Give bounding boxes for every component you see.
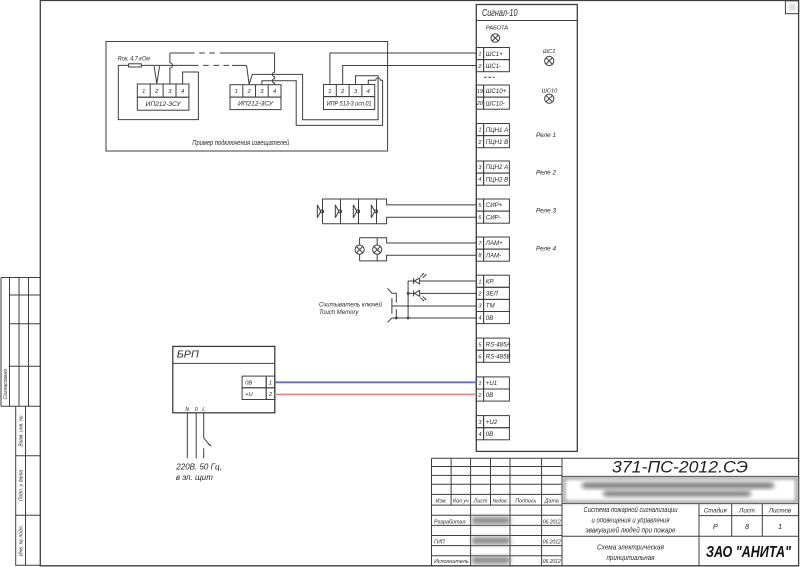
resistor Rok 4.7kOhm [118,55,151,67]
svg-text:Р: Р [713,522,718,531]
terminal 1 ШС1+ [476,48,509,60]
label 220V [175,461,221,482]
siren BA3 [353,205,359,218]
svg-text:1: 1 [235,89,238,95]
LED red KR [408,273,476,284]
svg-text:Реле 2: Реле 2 [536,169,556,176]
svg-text:ПЦН1 В: ПЦН1 В [486,139,508,146]
terminal 6 RS-485B [476,350,510,362]
svg-text:Лист: Лист [738,507,755,514]
svg-text:N: N [185,407,189,413]
svg-text:19: 19 [477,89,483,95]
terminal 1 +U1 [476,377,509,389]
row Razrabotal [434,519,561,525]
svg-text:Реле 3: Реле 3 [536,207,556,214]
svg-text:RS-485B: RS-485B [486,353,511,360]
terminal 8 ЛАМ- [476,249,509,261]
svg-text:Дата: Дата [544,498,559,504]
svg-text:20: 20 [476,101,484,107]
svg-text:Реле 4: Реле 4 [536,245,556,252]
svg-text:0В: 0В [486,431,493,438]
svg-text:эвакуацией людей при пожаре: эвакуацией людей при пожаре [586,527,676,535]
wire: det1 terminal4 loop through resistor [118,65,198,119]
field Podp.i data [16,514,41,516]
svg-text:RS-485A: RS-485A [486,341,511,348]
svg-text:1: 1 [478,52,481,58]
svg-text:ЛАМ+: ЛАМ+ [485,240,503,247]
terminal 3 +U2 [476,416,509,428]
terminal 7 ЛАМ+ [476,237,509,249]
svg-text:Сигнал-10: Сигнал-10 [482,8,518,19]
svg-text:Кол.уч: Кол.уч [453,498,469,504]
svg-text:1: 1 [142,89,145,95]
svg-text:ШС1-: ШС1- [486,63,501,70]
svg-text:Rок, 4,7 кОм: Rок, 4,7 кОм [118,55,151,62]
svg-text:Листов: Листов [768,507,791,514]
svg-text:Инв. № подл.: Инв. № подл. [18,525,24,556]
svg-text:и оповещения и управления: и оповещения и управления [592,517,670,524]
Soglasovano table [1,278,40,407]
svg-text:ЛАМ-: ЛАМ- [485,252,501,259]
wire TM [392,305,476,307]
svg-text:06.2012: 06.2012 [543,539,561,545]
terminal 4 0В [476,428,509,440]
TM reader contact symbol [388,288,397,322]
svg-text:ШС10-: ШС10- [486,100,505,107]
label Touch Memory reader [319,301,383,316]
svg-text:1: 1 [269,380,272,386]
svg-text:КР.: КР. [486,278,495,285]
project title [584,506,678,535]
wire 0V (red) [275,393,477,395]
mains wire L with switch [204,413,212,458]
svg-text:0: 0 [195,407,198,413]
stage cells [704,507,791,514]
svg-text:1: 1 [328,89,331,95]
terminal 2 ЗЕЛ [476,287,509,299]
svg-text:принципиальная: принципиальная [607,555,655,562]
wire: IPR terminal 1 to ShS1+ [330,53,476,85]
svg-text:БРП: БРП [177,349,200,360]
wire +U1 (blue) [275,381,477,383]
svg-text:ПЦН1 А: ПЦН1 А [486,127,508,134]
svg-text:Схема электрическая: Схема электрическая [597,545,664,552]
LED chain vertical [407,281,409,318]
svg-text:Считыватель ключей: Считыватель ключей [319,301,383,308]
svg-text:Пример подключения извещателей: Пример подключения извещателей [192,139,289,147]
svg-text:Система пожарной сигнализации: Система пожарной сигнализации [584,506,678,514]
terminal 4 ПЦН2 В [476,173,509,185]
BRP terminal +U / 2 [242,388,275,400]
svg-text:Согласовано: Согласовано [3,369,9,400]
terminal 19 ШС10+ [476,85,509,97]
svg-text:4: 4 [478,432,481,438]
svg-text:ШС10+: ШС10+ [486,88,507,95]
lamp HL1 [355,245,364,254]
mains wire N [186,413,188,458]
LED ShS10 [542,88,559,103]
svg-text:4: 4 [181,89,184,95]
svg-text:ШС1+: ШС1+ [486,51,503,58]
junction dots [395,317,398,320]
svg-text:Взам. инв. №: Взам. инв. № [18,415,24,447]
terminal 3 ПЦН2 А [476,161,509,173]
row GIP [434,539,561,545]
arrow into det1 terminal 2 [154,66,160,83]
svg-text:ЗЕЛ: ЗЕЛ [486,291,499,298]
top-right corner cell [785,1,798,14]
lamp HL2 [373,245,382,254]
wire: det2 terminal 3 to IPR terminal 4 with hop [262,78,383,125]
svg-text:Реле 1: Реле 1 [536,132,556,139]
svg-text:ШС1: ШС1 [543,49,556,55]
svg-text:ГИП: ГИП [434,539,445,545]
svg-text:ИП212-3СУ: ИП212-3СУ [238,101,274,108]
terminal 5 RS-485A [476,338,510,350]
title block grid [432,458,799,566]
svg-text:0В: 0В [486,392,493,399]
field Vzam.inv.No [16,406,41,566]
mains wire 0 [195,413,197,458]
svg-text:1: 1 [778,522,782,531]
svg-text:№док.: №док. [493,498,509,504]
lamp ladder wires [360,238,477,261]
svg-text:371-ПС-2012.СЭ: 371-ПС-2012.СЭ [612,459,748,477]
svg-text:СИР-: СИР- [486,214,501,221]
wire: lower loop bus (resistor to det2 term2) [141,64,193,66]
svg-text:ПЦН2 А: ПЦН2 А [486,164,508,171]
unit Signal-10 [476,5,577,452]
svg-text:в эл. щит: в эл. щит [176,472,213,482]
siren BA2 [335,205,341,218]
terminal 2 ПЦН1 В [476,136,509,148]
svg-text:СИР+: СИР+ [486,202,503,209]
svg-text:ПЦН2 В: ПЦН2 В [486,176,508,183]
svg-text:Изм.: Изм. [436,498,447,504]
svg-text:ИП212-3СУ: ИП212-3СУ [146,101,182,108]
wire: det1 terminal 3 riser with hop [170,53,173,84]
detector block IP212-3SU #1 [137,84,189,110]
svg-text:1: 1 [478,279,481,285]
svg-text:Touch Memory: Touch Memory [319,310,359,316]
BRP terminal 0V / 1 [242,376,275,388]
LED green ZEL [408,290,476,301]
siren BA4 [371,205,377,218]
svg-text:ИПР 513-3 исп.01: ИПР 513-3 исп.01 [327,100,372,107]
LED RABOTA [486,26,508,43]
svg-text:1: 1 [478,128,481,134]
svg-text:L: L [202,407,205,413]
power unit BRP [173,346,275,412]
svg-text:06.2012: 06.2012 [543,559,561,565]
terminal 4 0В [476,312,509,324]
svg-text:4: 4 [478,316,481,322]
wire: riser into det2 terminal 4 with hops [272,53,274,85]
svg-text:+U2: +U2 [486,419,498,426]
svg-text:Лист: Лист [473,498,488,504]
svg-text:ШС10: ШС10 [542,88,559,94]
detector block IPR 513-3 [324,85,375,110]
svg-text:ТМ: ТМ [486,303,496,310]
terminal 1 КР. [476,275,509,287]
row Ispolnitel [434,559,561,565]
wire: IPR terminal 2 to ShS1- [343,66,477,85]
svg-text:Подп. и дата: Подп. и дата [18,470,24,502]
terminal 2 0В [476,389,509,401]
terminal 3 ТМ [476,299,509,311]
svg-text:Разработал: Разработал [434,519,465,525]
svg-text:1: 1 [478,381,481,387]
svg-text:РАБОТА: РАБОТА [486,26,508,32]
detector block IP212-3SU #2 [230,85,281,110]
svg-text:0В: 0В [486,315,493,322]
terminal 6 СИР- [476,211,509,223]
drawing name [597,545,664,562]
svg-text:0В: 0В [245,380,252,386]
terminal 1 ПЦН1 А [476,124,509,136]
svg-text:Подпись: Подпись [515,498,536,504]
blurred object name [564,478,797,502]
wire: upper loop bus (det1 term3 to det2 term4) [170,52,189,54]
terminal 5 СИР+ [476,199,509,211]
terminal 2 ШС1- [476,60,509,72]
LED ShS1 [543,49,556,66]
siren ladder wires [323,199,477,224]
svg-text:ЗАО "АНИТА": ЗАО "АНИТА" [706,544,791,561]
siren BA1 [317,205,323,218]
wire 0V bottom [396,317,476,319]
svg-text:220В, 50 Гц,: 220В, 50 Гц, [175,461,221,471]
terminal 20 ШС10- [476,97,510,109]
continuation dashes [484,76,495,78]
svg-text:4: 4 [478,177,481,183]
detector example box [106,42,388,152]
mains labels N 0 L [185,407,205,413]
arrow into det2 terminal 2 + wire to IPR term3 [247,65,379,119]
svg-text:+U: +U [245,392,253,398]
svg-text:4: 4 [273,89,276,95]
svg-text:+U1: +U1 [486,380,497,387]
svg-text:Исполнитель: Исполнитель [434,559,469,565]
svg-text:06.2012: 06.2012 [543,519,561,525]
svg-text:4: 4 [367,89,370,95]
title block headers [436,498,559,504]
svg-text:Стадия: Стадия [704,507,728,514]
